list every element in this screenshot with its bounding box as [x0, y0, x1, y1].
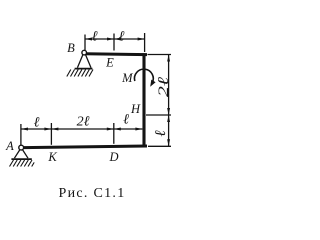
svg-text:A: A	[5, 139, 14, 153]
arrowheads	[21, 38, 170, 147]
support A hinge circle	[19, 145, 24, 150]
support B hinge circle	[82, 50, 87, 55]
dimension: right dim line	[168, 55, 170, 147]
svg-text:2ℓ: 2ℓ	[156, 77, 172, 97]
svg-text:E: E	[105, 56, 114, 70]
svg-text:ℓ: ℓ	[153, 130, 169, 136]
dimension: top extension ticks	[85, 33, 145, 52]
support A pin triangle	[11, 150, 31, 160]
svg-text:ℓ: ℓ	[123, 113, 129, 128]
svg-text:M: M	[121, 71, 133, 85]
svg-text:D: D	[108, 150, 118, 164]
svg-text:ℓ: ℓ	[119, 30, 125, 45]
arrows at K tick	[44, 128, 51, 131]
svg-text:K: K	[47, 150, 57, 164]
dimension: right extension lines	[146, 55, 171, 147]
right dim arrows: down+up at H level	[167, 108, 170, 115]
right dim arrows: up at top	[167, 55, 170, 62]
svg-text:Рис. С1.1: Рис. С1.1	[58, 186, 125, 201]
support A hatching	[10, 160, 35, 167]
svg-text:ℓ: ℓ	[34, 116, 40, 131]
arrow tip left at A	[21, 128, 28, 131]
wire: right vertical member	[142, 53, 145, 147]
arrows at E tick	[107, 38, 114, 41]
arrow tip right at member	[135, 128, 142, 131]
svg-text:B: B	[67, 41, 75, 55]
moment arc arrowhead	[150, 80, 155, 87]
dimension: top dim line	[85, 38, 145, 40]
dimension: bottom extension ticks	[21, 123, 142, 145]
support B hatching	[67, 70, 93, 77]
svg-text:ℓ: ℓ	[92, 30, 98, 45]
arrow tip right at top corner tick	[138, 38, 145, 41]
svg-text:H: H	[130, 102, 141, 116]
support B pin triangle	[75, 54, 93, 68]
wire: bottom beam A to corner	[24, 146, 147, 148]
arrow tip left at B tick	[85, 38, 92, 41]
moment M arc	[134, 69, 153, 83]
caption	[58, 186, 125, 201]
right dim arrow: down at bottom	[167, 139, 170, 146]
dimension: bottom dim line	[21, 128, 142, 130]
arrows at D tick	[107, 128, 114, 131]
svg-text:2ℓ: 2ℓ	[77, 115, 90, 130]
wire: top beam B to corner	[86, 52, 148, 56]
